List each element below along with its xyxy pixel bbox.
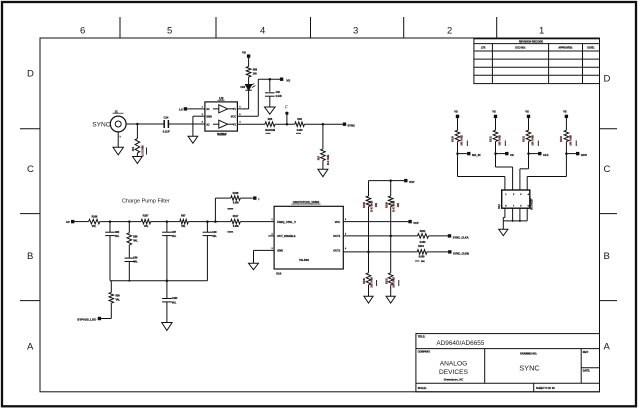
wire R97 to R117 xyxy=(188,221,230,223)
svg-text:C14: C14 xyxy=(164,116,169,120)
svg-text:10 K OHM: 10 K OHM xyxy=(393,201,396,212)
svg-text:R109: R109 xyxy=(385,201,388,207)
ground at U12 xyxy=(499,229,508,235)
resistor R58 xyxy=(246,67,251,78)
buffer 2 triangle in U9 xyxy=(219,120,228,128)
resistor R63 series xyxy=(295,122,305,127)
svg-text:OUT1: OUT1 xyxy=(333,234,340,238)
svg-text:VAL: VAL xyxy=(115,235,120,238)
wire SYNC to node xyxy=(126,123,164,125)
svg-text:REVISION RECORD: REVISION RECORD xyxy=(519,39,543,43)
svg-text:D: D xyxy=(27,69,34,80)
svg-text:C104: C104 xyxy=(172,297,178,300)
wire U9 VCC riser xyxy=(237,115,258,117)
title block xyxy=(416,334,600,392)
wire R131 to U12 xyxy=(496,166,513,168)
svg-text:NC7WZ07: NC7WZ07 xyxy=(530,198,533,210)
svg-text:CLK: CLK xyxy=(543,153,549,157)
svg-text:R102: R102 xyxy=(420,231,426,233)
resistor R98 to BYPASS_LDO xyxy=(110,281,112,293)
wire R104 to pad xyxy=(427,251,448,253)
svg-text:LO: LO xyxy=(179,108,183,112)
wire R108 to F pad xyxy=(240,197,253,199)
svg-text:VAL: VAL xyxy=(133,240,138,243)
svg-text:SHEET 5 OF 10: SHEET 5 OF 10 xyxy=(536,386,555,390)
wire R132 to U12 xyxy=(520,168,529,170)
svg-text:R101: R101 xyxy=(385,277,388,283)
wire LO pad to U9 A1 xyxy=(187,108,205,110)
svg-text:100 OHM: 100 OHM xyxy=(532,135,535,145)
capacitor C90 shunt xyxy=(206,222,208,233)
pad BYPASS_LDO xyxy=(98,317,101,320)
wire U9 Y2 output xyxy=(237,123,265,125)
node junction bus pin2 xyxy=(512,220,514,222)
wire R66 to R63 xyxy=(275,123,295,125)
svg-text:MA_IN: MA_IN xyxy=(472,153,480,157)
svg-text:VAL: VAL xyxy=(172,301,177,304)
power flag VS at C26 xyxy=(280,78,283,81)
pad VCP pullup rail xyxy=(404,179,407,182)
capacitor C14 series xyxy=(163,120,165,128)
capacitor C89 xyxy=(128,245,130,258)
capacitor C87 shunt xyxy=(166,222,168,233)
svg-text:0.1UF: 0.1UF xyxy=(163,130,170,134)
svg-text:R104: R104 xyxy=(418,245,424,248)
svg-text:VS: VS xyxy=(242,50,246,54)
svg-text:0.000: 0.000 xyxy=(297,130,303,132)
svg-text:COMPANY:: COMPANY: xyxy=(418,351,431,354)
svg-text:VAL: VAL xyxy=(181,225,186,228)
ground at U10 xyxy=(249,263,259,269)
svg-text:VAL: VAL xyxy=(92,225,97,228)
wire U9 GND to ground xyxy=(193,115,205,117)
svg-text:C90: C90 xyxy=(212,232,217,234)
svg-text:100 OHM: 100 OHM xyxy=(371,277,374,287)
svg-text:ECO NO:: ECO NO: xyxy=(515,47,525,50)
svg-text:R67: R67 xyxy=(319,155,321,160)
svg-text:VCC: VCC xyxy=(335,220,341,224)
svg-text:VCC: VCC xyxy=(231,115,236,118)
svg-text:APPROVED:: APPROVED: xyxy=(558,47,572,50)
resistor R107 xyxy=(141,219,151,224)
svg-text:AD9640/AD6655: AD9640/AD6655 xyxy=(436,340,484,347)
svg-text:1.0 KOHM: 1.0 KOHM xyxy=(142,145,144,156)
svg-text:100 OHM: 100 OHM xyxy=(499,135,502,145)
resistor R67 shunt xyxy=(322,124,324,149)
wire VS rail xyxy=(258,78,281,80)
svg-text:F: F xyxy=(285,104,288,109)
pad CLK xyxy=(529,153,539,155)
wire C86 to bus xyxy=(109,236,111,281)
svg-text:CP: CP xyxy=(66,220,70,224)
svg-text:R58: R58 xyxy=(253,69,258,71)
capacitor C26 decoupling xyxy=(269,79,271,92)
svg-text:R98: R98 xyxy=(116,296,121,298)
svg-text:A: A xyxy=(604,342,611,353)
node junction MA_IN xyxy=(456,152,459,155)
capacitor C86 shunt xyxy=(109,222,111,233)
oscillator U10 VCXO xyxy=(274,206,343,269)
svg-text:0.1UF: 0.1UF xyxy=(276,96,283,98)
svg-text:J1: J1 xyxy=(115,109,119,113)
svg-text:R105: R105 xyxy=(363,201,366,207)
ground at C26 xyxy=(265,107,276,114)
svg-text:1: 1 xyxy=(539,26,544,37)
wire C90 to bus xyxy=(206,236,208,281)
node junction C90 xyxy=(206,220,209,223)
svg-text:0.000: 0.000 xyxy=(233,226,239,228)
node junction CLK xyxy=(527,152,530,155)
svg-text:C86: C86 xyxy=(115,232,120,234)
ground at R61 xyxy=(133,157,143,164)
svg-text:DNI: DNI xyxy=(397,203,400,207)
svg-text:Charge Pump Filter: Charge Pump Filter xyxy=(122,198,170,204)
pad SYNC_CLKB xyxy=(448,250,451,253)
svg-text:SYNC: SYNC xyxy=(92,122,111,129)
wire OUT2 to R104 xyxy=(343,251,417,253)
svg-text:CS: CS xyxy=(510,153,514,157)
svg-text:100 OHM: 100 OHM xyxy=(461,135,464,145)
svg-text:R130: R130 xyxy=(451,135,454,141)
svg-text:C87: C87 xyxy=(172,232,177,234)
wire U10 VCC to VCP pad xyxy=(343,221,408,223)
svg-text:LTR: LTR xyxy=(481,47,486,50)
resistor R105 pullup xyxy=(368,181,370,196)
svg-text:R133: R133 xyxy=(560,135,563,141)
svg-text:10 K OHM: 10 K OHM xyxy=(371,201,374,212)
svg-text:SYNC_CLKB: SYNC_CLKB xyxy=(453,251,469,255)
svg-text:3: 3 xyxy=(353,26,358,37)
node junction bus C89 xyxy=(128,280,130,282)
svg-text:DNI: DNI xyxy=(421,261,425,263)
wire CP to R106 xyxy=(74,221,88,223)
wire C87 to bus xyxy=(166,236,168,281)
bus charge pump bottom xyxy=(110,280,207,282)
svg-text:VAL: VAL xyxy=(133,261,138,264)
svg-text:VS: VS xyxy=(286,79,290,83)
wire R107 to R97 xyxy=(151,221,180,223)
svg-text:TITLE:: TITLE: xyxy=(418,336,426,339)
wire BNC shield to ground xyxy=(117,132,119,147)
svg-text:C: C xyxy=(604,164,611,175)
svg-text:VAL: VAL xyxy=(212,235,217,238)
svg-text:VCP: VCP xyxy=(409,180,415,184)
svg-text:R100: R100 xyxy=(363,277,366,283)
buffer 1 triangle in U9 xyxy=(219,105,228,113)
wire R106 to R107 xyxy=(100,221,141,223)
svg-text:R107: R107 xyxy=(143,214,149,217)
svg-text:U9: U9 xyxy=(219,96,223,100)
wire bus to ground xyxy=(502,221,504,229)
wire VS to R58 xyxy=(248,58,250,67)
svg-text:R63: R63 xyxy=(297,118,302,121)
LED CR6 xyxy=(245,85,251,91)
wire R98 to pad xyxy=(110,303,112,318)
svg-text:CR6: CR6 xyxy=(240,87,245,89)
wire C14 to U9 A2 xyxy=(168,123,205,125)
pad SYNC_CLKA xyxy=(448,234,451,237)
svg-text:SDO: SDO xyxy=(581,153,587,157)
resistor R109 pullup xyxy=(390,181,392,196)
wire C26 to ground xyxy=(269,96,271,107)
svg-text:REV:: REV: xyxy=(583,351,589,354)
svg-text:0.000: 0.000 xyxy=(419,256,425,258)
pad SYNC output xyxy=(343,123,346,126)
wire R117 to U10 pin1 xyxy=(240,221,274,223)
svg-text:VCP: VCP xyxy=(413,221,419,225)
wire R58 to CR6 xyxy=(248,77,250,84)
ground at U9 GND xyxy=(188,136,198,143)
pad VCP at VCC xyxy=(408,220,411,223)
svg-text:C26: C26 xyxy=(276,92,281,94)
wire U10 GND to ground xyxy=(254,249,275,251)
resistor R132 pullup xyxy=(528,118,530,130)
resistor R106 xyxy=(89,219,100,224)
svg-text:R108: R108 xyxy=(233,192,239,195)
svg-text:OUT2: OUT2 xyxy=(333,249,340,253)
node F junction xyxy=(286,123,289,126)
svg-text:DNI: DNI xyxy=(375,203,378,207)
resistor R117 xyxy=(231,219,241,224)
svg-text:B: B xyxy=(27,251,33,262)
node junction C87 xyxy=(166,220,169,223)
svg-text:R117: R117 xyxy=(233,215,239,218)
svg-text:C89: C89 xyxy=(133,258,138,260)
node junction OUT1 pullup xyxy=(389,235,392,238)
U12 bottom pins to bus xyxy=(504,208,506,217)
node junction VCP rail xyxy=(389,179,392,182)
resistor R97 xyxy=(180,219,189,224)
svg-text:SYNC: SYNC xyxy=(519,364,540,373)
wire CR6 to U9 Y1 xyxy=(248,90,250,109)
svg-text:VAL: VAL xyxy=(144,225,149,228)
node junction bus C104 xyxy=(166,280,169,283)
resistor R133 pullup xyxy=(565,118,567,130)
ground at BNC xyxy=(113,147,123,155)
svg-text:BYPASS_LDO: BYPASS_LDO xyxy=(77,318,97,322)
flag F testpoint xyxy=(286,114,288,124)
svg-text:5: 5 xyxy=(167,26,172,37)
resistor R101 termination xyxy=(388,273,393,285)
svg-text:100 OHM: 100 OHM xyxy=(393,277,396,287)
zone ticks left xyxy=(20,128,40,130)
svg-text:DATE:: DATE: xyxy=(587,47,594,50)
svg-text:49.9 OHM: 49.9 OHM xyxy=(327,155,330,166)
svg-text:A: A xyxy=(27,342,34,353)
pad CS xyxy=(496,153,506,155)
svg-text:VS: VS xyxy=(525,109,529,113)
svg-text:Greensboro, NC: Greensboro, NC xyxy=(444,377,464,381)
svg-text:2: 2 xyxy=(447,26,452,37)
node junction at R61 xyxy=(136,123,139,126)
resistor R61 shunt xyxy=(136,124,138,139)
wire branch up to R108 xyxy=(214,198,216,222)
svg-text:4: 4 xyxy=(260,26,265,37)
svg-text:VAL: VAL xyxy=(172,235,177,238)
resistor R88 series to C89 xyxy=(128,222,130,233)
svg-text:D: D xyxy=(604,74,611,85)
node junction R88 xyxy=(128,220,131,223)
wire R102 to pad xyxy=(429,235,448,237)
wire C89 to bus xyxy=(128,262,130,281)
wire OUT1 to R102 xyxy=(343,235,417,237)
svg-text:R97: R97 xyxy=(181,214,186,217)
svg-text:C: C xyxy=(27,164,34,175)
inner drawing border xyxy=(40,38,600,392)
resistor R104 series xyxy=(417,250,427,255)
svg-text:SYNC_CLKA: SYNC_CLKA xyxy=(453,235,469,239)
resistor R130 pullup xyxy=(457,118,459,130)
pad MA_IN xyxy=(458,153,468,155)
svg-text:U12: U12 xyxy=(498,204,501,209)
wire R63 to SYNC pad xyxy=(304,123,343,125)
svg-text:DRAWING NO:: DRAWING NO: xyxy=(520,352,537,355)
svg-text:6: 6 xyxy=(80,26,85,37)
svg-text:0.000: 0.000 xyxy=(420,242,426,244)
node junction bus pin3 xyxy=(519,220,521,222)
svg-text:SYNC: SYNC xyxy=(348,124,356,128)
svg-text:U10: U10 xyxy=(276,271,282,275)
svg-text:R61: R61 xyxy=(133,146,135,151)
ground at R100 xyxy=(364,296,373,303)
svg-text:GND: GND xyxy=(206,115,212,118)
svg-text:0.000: 0.000 xyxy=(233,203,239,205)
zone tick top xyxy=(119,17,121,38)
wire VCP top rail xyxy=(369,180,405,182)
svg-text:R88: R88 xyxy=(133,237,138,239)
connector J1 BNC xyxy=(110,116,126,132)
svg-text:GND: GND xyxy=(277,249,283,253)
svg-text:100 OHM: 100 OHM xyxy=(570,135,573,145)
wire R130 to U12 xyxy=(458,176,505,178)
svg-text:SCALE:: SCALE: xyxy=(418,387,427,390)
svg-text:R131: R131 xyxy=(489,135,492,141)
bus U12 ground xyxy=(503,220,527,222)
svg-text:VAL: VAL xyxy=(116,299,121,302)
svg-text:OSC/VCTCXO_VS500: OSC/VCTCXO_VS500 xyxy=(293,200,320,204)
svg-text:49.9OHM: 49.9OHM xyxy=(265,129,275,132)
svg-text:DATE:: DATE: xyxy=(583,370,590,373)
node junction SDO xyxy=(565,152,568,155)
resistor R102 series xyxy=(418,234,429,239)
node junction CS xyxy=(494,152,497,155)
pad SDO xyxy=(566,153,576,155)
svg-text:ANALOG: ANALOG xyxy=(440,361,467,368)
svg-text:OUT_DISABLE: OUT_DISABLE xyxy=(277,234,296,238)
ground at R101 xyxy=(386,296,395,303)
resistor R100 termination xyxy=(366,273,371,285)
node junction at R67 xyxy=(322,123,325,126)
buffer U12 xyxy=(502,190,530,208)
ground at C104 xyxy=(162,323,172,331)
svg-text:R106: R106 xyxy=(92,215,98,218)
node junction OUT2 pullup xyxy=(367,251,370,254)
node junction C86 xyxy=(109,220,112,223)
resistor R131 pullup xyxy=(495,118,497,130)
svg-text:VS: VS xyxy=(492,109,496,113)
capacitor C104 xyxy=(166,281,168,299)
revision record table xyxy=(474,39,600,84)
svg-text:R66: R66 xyxy=(268,118,273,121)
resistor R108 xyxy=(231,196,241,201)
op-amp U9 dual buffer xyxy=(205,102,238,131)
zone ticks right xyxy=(600,128,618,130)
svg-text:B: B xyxy=(604,251,610,262)
wire C104 to ground xyxy=(166,302,168,323)
resistor R66 series xyxy=(265,122,275,127)
ground at R67 xyxy=(318,169,328,176)
svg-text:FREQ_CTRL_V: FREQ_CTRL_V xyxy=(277,220,296,224)
svg-text:VS: VS xyxy=(454,109,458,113)
DNI mark R104 xyxy=(415,260,420,262)
svg-text:R132: R132 xyxy=(522,135,525,141)
wire R133 to U12 xyxy=(527,176,566,178)
stub OUT_DISABLE xyxy=(268,235,274,237)
svg-text:DEVICES: DEVICES xyxy=(439,369,469,376)
pad F xyxy=(253,196,256,199)
svg-text:VS-500: VS-500 xyxy=(299,258,309,262)
node junction C26 xyxy=(269,78,272,81)
svg-text:VS: VS xyxy=(563,109,567,113)
